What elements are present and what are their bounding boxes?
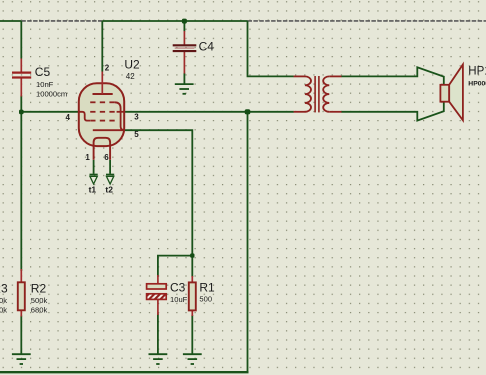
svg-text:500k: 500k (0, 296, 7, 305)
resistor R1 pins (191, 276, 193, 283)
tube U2 cathode line (pin 5) (93, 129, 125, 131)
capacitor C5 plates (12, 71, 31, 73)
ground symbol below C3 (149, 354, 168, 364)
speaker HP1 cone (449, 65, 463, 121)
capacitor C4 plates (173, 44, 197, 46)
transformer TR1 primary winding (305, 76, 311, 111)
terminal arrow t1 (90, 175, 98, 185)
wire heater pin6 lead (109, 160, 111, 174)
junction node A (grid divider tap) (19, 110, 24, 115)
wire node B down to R1 (191, 256, 193, 277)
svg-text:1: 1 (85, 153, 90, 162)
svg-text:C4: C4 (199, 40, 215, 54)
resistor R2 body (18, 282, 25, 310)
wire transformer secondary top to speaker (341, 67, 444, 85)
wire tube pin 2 to top rail (101, 21, 103, 72)
tube U2 anode plate (93, 93, 113, 95)
wire R2 bottom to ground (20, 316, 22, 355)
junction node B (C3/R1) (190, 253, 194, 257)
svg-text:42: 42 (126, 72, 135, 81)
vacuum tube U2 envelope (79, 83, 124, 146)
wire transformer secondary bottom to speaker (341, 102, 444, 121)
capacitor C3 negative plate (hatched) (147, 294, 167, 300)
wire top rail left (edge to C5) (0, 20, 21, 22)
svg-text:R1: R1 (199, 281, 215, 295)
wire C4 top tap (183, 21, 185, 32)
tube U2 grid1 hook to pin 5 (115, 102, 125, 130)
wire C3 top elbow to node B (158, 256, 192, 277)
svg-text:3: 3 (134, 113, 139, 122)
wire C3 bottom to ground (157, 314, 159, 355)
wire plate node down to bottom rail (247, 112, 249, 372)
ground symbol below R1 (183, 354, 202, 364)
svg-text:t2: t2 (105, 185, 113, 195)
svg-text:680k: 680k (31, 305, 48, 314)
tube U2 heater arch (94, 138, 111, 160)
svg-text:C3: C3 (170, 281, 186, 295)
svg-text:R3: R3 (0, 282, 8, 296)
svg-text:C5: C5 (35, 65, 51, 79)
wire R1 bottom to ground (191, 315, 193, 354)
svg-text:5: 5 (134, 130, 139, 139)
speaker HP1 driver box (440, 85, 449, 102)
svg-text:10000cm: 10000cm (36, 89, 67, 98)
tube U2 grid row 3 (dashes) (90, 120, 115, 122)
tube U2 grid row 1 (dashes) (90, 101, 115, 103)
junction node at C4 top (182, 19, 187, 24)
wire top rail (tube pin2 to supply corner) (102, 20, 247, 22)
sheet border dashed segment right of supply rail (248, 20, 486, 22)
transformer TR1 secondary winding (323, 76, 329, 111)
svg-text:t1: t1 (89, 185, 97, 195)
ground symbol below C4 (175, 84, 194, 94)
svg-text:HP000: HP000 (468, 80, 486, 87)
capacitor C3 positive plate (147, 284, 167, 289)
transformer TR1 primary pins (294, 75, 306, 77)
ground symbol below R2 (12, 354, 31, 364)
transformer TR1 core (314, 76, 316, 112)
tube U2 pin 2 lead (red part) (101, 72, 103, 95)
svg-text:500: 500 (199, 295, 212, 304)
wire C5 bottom to junction A to R2 (20, 96, 22, 272)
wire tube pin 3 to transformer primary bottom (124, 111, 294, 113)
wire heater pin1 lead (93, 160, 95, 174)
tube U2 grid row 2 (dashes, exits as pin 3) (90, 111, 124, 113)
capacitor C5 pins (20, 21, 22, 59)
tube U2 pin 4 elbow (80, 112, 91, 121)
svg-text:R2: R2 (31, 282, 47, 296)
svg-text:HP1: HP1 (468, 66, 486, 78)
wire bottom rail (0, 371, 249, 373)
svg-text:2: 2 (105, 63, 110, 72)
resistor R1 body (189, 282, 196, 310)
svg-text:500k: 500k (31, 296, 48, 305)
svg-text:10nF: 10nF (36, 80, 54, 89)
svg-text:10uF: 10uF (170, 295, 188, 304)
terminal arrow t2 (106, 175, 114, 185)
sheet border dashed segment between C5 and tube pin 2 (21, 20, 102, 22)
wire supply rail down to transformer primary top (248, 21, 294, 76)
transformer TR1 secondary pins (329, 75, 341, 77)
wire C4 bottom to ground (183, 73, 185, 84)
wire grid row from junction A to tube pin 4 (21, 111, 79, 113)
capacitor C3 pins (157, 275, 159, 284)
junction node plate/rail (245, 109, 251, 114)
resistor R2 pins (20, 269, 22, 283)
wire tube pin 5 down to R1/C3 node (124, 130, 192, 255)
capacitor C4 pins (183, 31, 185, 45)
svg-text:6: 6 (104, 153, 109, 162)
svg-text:680k: 680k (0, 305, 7, 314)
svg-text:4: 4 (66, 113, 71, 122)
svg-text:U2: U2 (124, 57, 140, 71)
